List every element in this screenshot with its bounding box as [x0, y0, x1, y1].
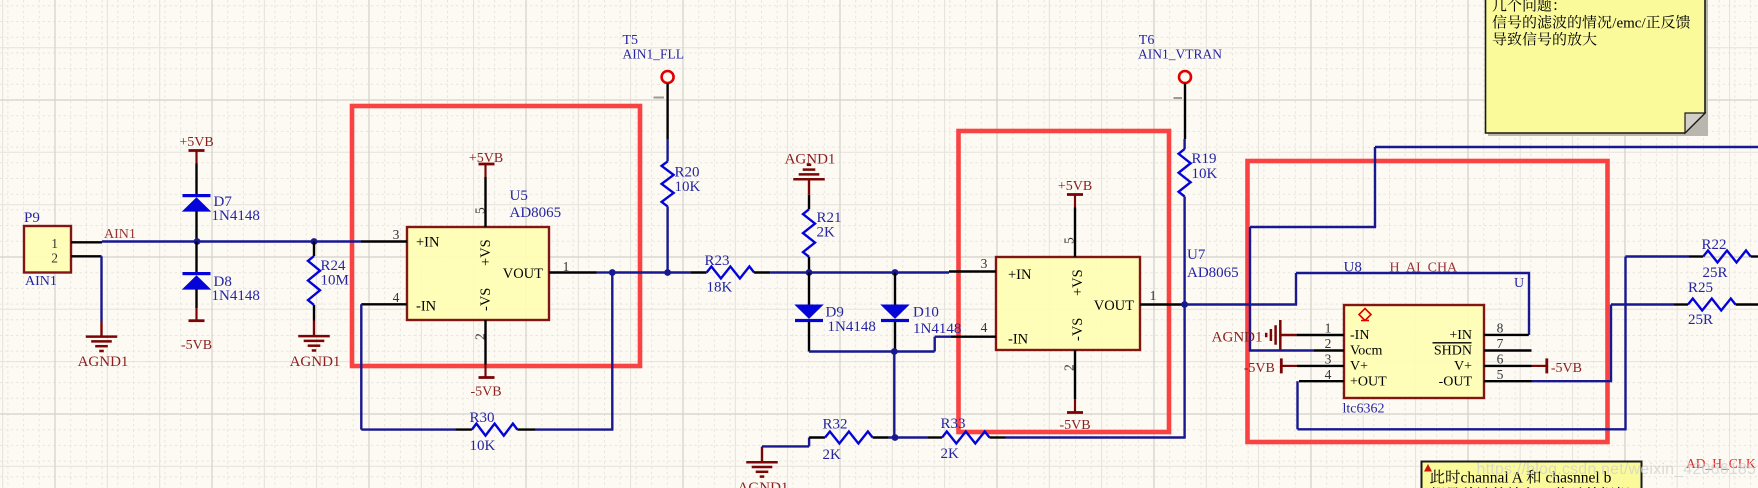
svg-text:1: 1	[51, 236, 58, 251]
svg-text:3: 3	[393, 227, 400, 242]
svg-text:U7: U7	[1187, 247, 1206, 263]
svg-text:6: 6	[1497, 352, 1504, 367]
svg-text:AGND1: AGND1	[1212, 330, 1263, 346]
svg-text:1: 1	[563, 259, 570, 274]
svg-text:-IN: -IN	[1350, 328, 1369, 343]
svg-text:+OUT: +OUT	[1350, 375, 1387, 390]
svg-text:R19: R19	[1192, 151, 1217, 167]
svg-text:+IN: +IN	[1449, 328, 1472, 343]
svg-text:AD8065: AD8065	[510, 205, 562, 221]
svg-text:2K: 2K	[817, 225, 836, 241]
svg-text:3: 3	[1325, 352, 1332, 367]
svg-text:V+: V+	[1350, 359, 1368, 374]
svg-text:R25: R25	[1688, 280, 1713, 296]
svg-text:U8: U8	[1344, 260, 1362, 276]
svg-text:1: 1	[1325, 321, 1332, 336]
svg-text:5: 5	[1497, 367, 1504, 382]
svg-text:AIN1_FLL: AIN1_FLL	[623, 47, 685, 62]
svg-text:1: 1	[1150, 288, 1157, 303]
svg-text:R33: R33	[941, 416, 966, 432]
svg-text:-IN: -IN	[416, 299, 437, 315]
svg-text:-5VB: -5VB	[1551, 361, 1582, 376]
svg-text:-5VB: -5VB	[470, 385, 501, 400]
svg-text:1N4148: 1N4148	[212, 288, 260, 304]
svg-text:AGND1: AGND1	[738, 480, 789, 488]
svg-text:-5VB: -5VB	[1244, 361, 1275, 376]
svg-text:/emc/: /emc/	[1612, 16, 1646, 32]
svg-text:4: 4	[1325, 367, 1332, 382]
svg-text:2K: 2K	[941, 446, 960, 462]
svg-text:10K: 10K	[675, 179, 701, 195]
svg-text:2K: 2K	[823, 447, 842, 463]
svg-text:-OUT: -OUT	[1439, 375, 1473, 390]
svg-text:10M: 10M	[321, 273, 349, 289]
svg-text:U: U	[1514, 276, 1524, 291]
svg-text:25R: 25R	[1703, 265, 1728, 281]
svg-text:VOUT: VOUT	[503, 266, 543, 282]
svg-text:AGND1: AGND1	[78, 354, 129, 370]
svg-text:D10: D10	[913, 305, 939, 321]
svg-text:-5VB: -5VB	[181, 338, 212, 353]
svg-text:Vocm: Vocm	[1350, 344, 1383, 359]
svg-text:R32: R32	[823, 417, 848, 433]
svg-text:-IN: -IN	[1008, 332, 1029, 348]
svg-text:2: 2	[473, 333, 488, 340]
svg-text:5: 5	[1062, 237, 1077, 244]
svg-text:25R: 25R	[1688, 312, 1713, 328]
svg-text:+VS: +VS	[1070, 269, 1086, 296]
svg-text:AIN1: AIN1	[104, 227, 136, 242]
svg-text:+5VB: +5VB	[1058, 179, 1092, 194]
svg-text:H AI CHA: H AI CHA	[1390, 261, 1459, 276]
svg-text:-VS: -VS	[478, 288, 494, 311]
svg-text:U5: U5	[510, 188, 528, 204]
svg-text:AIN1: AIN1	[25, 274, 57, 289]
svg-text:+IN: +IN	[416, 235, 440, 251]
svg-text:-5VB: -5VB	[1059, 418, 1090, 433]
svg-text:P9: P9	[24, 210, 40, 226]
svg-text:4: 4	[393, 290, 400, 305]
svg-text:VOUT: VOUT	[1094, 298, 1134, 314]
svg-text:https://blog.csdn.net/weixin_4: https://blog.csdn.net/weixin_42066185	[1477, 461, 1757, 478]
svg-text:AD8065: AD8065	[1187, 265, 1239, 281]
svg-text:5: 5	[473, 207, 488, 214]
svg-text:R30: R30	[470, 410, 495, 426]
svg-text:4: 4	[981, 320, 988, 335]
svg-text:10K: 10K	[470, 438, 496, 454]
svg-text:7: 7	[1497, 336, 1504, 351]
svg-text:SHDN: SHDN	[1434, 344, 1472, 359]
svg-text:2: 2	[51, 251, 58, 266]
svg-text:V+: V+	[1454, 359, 1472, 374]
svg-text:1N4148: 1N4148	[212, 208, 260, 224]
svg-text:R23: R23	[705, 253, 730, 269]
svg-text:18K: 18K	[707, 280, 733, 296]
svg-text:2: 2	[1325, 336, 1332, 351]
svg-text:+5VB: +5VB	[179, 135, 213, 150]
svg-text:1N4148: 1N4148	[913, 321, 961, 337]
svg-text:3: 3	[981, 256, 988, 271]
svg-text:10K: 10K	[1192, 166, 1218, 182]
svg-text:+IN: +IN	[1008, 267, 1032, 283]
svg-text:+VS: +VS	[478, 239, 494, 266]
svg-text:AGND1: AGND1	[290, 354, 341, 370]
svg-text:1N4148: 1N4148	[828, 319, 876, 335]
svg-text:ltc6362: ltc6362	[1343, 402, 1385, 417]
svg-text:AIN1_VTRAN: AIN1_VTRAN	[1138, 47, 1222, 62]
svg-text:-VS: -VS	[1070, 318, 1086, 341]
svg-text:2: 2	[1062, 364, 1077, 371]
svg-text:8: 8	[1497, 321, 1504, 336]
svg-text:R22: R22	[1702, 237, 1727, 253]
